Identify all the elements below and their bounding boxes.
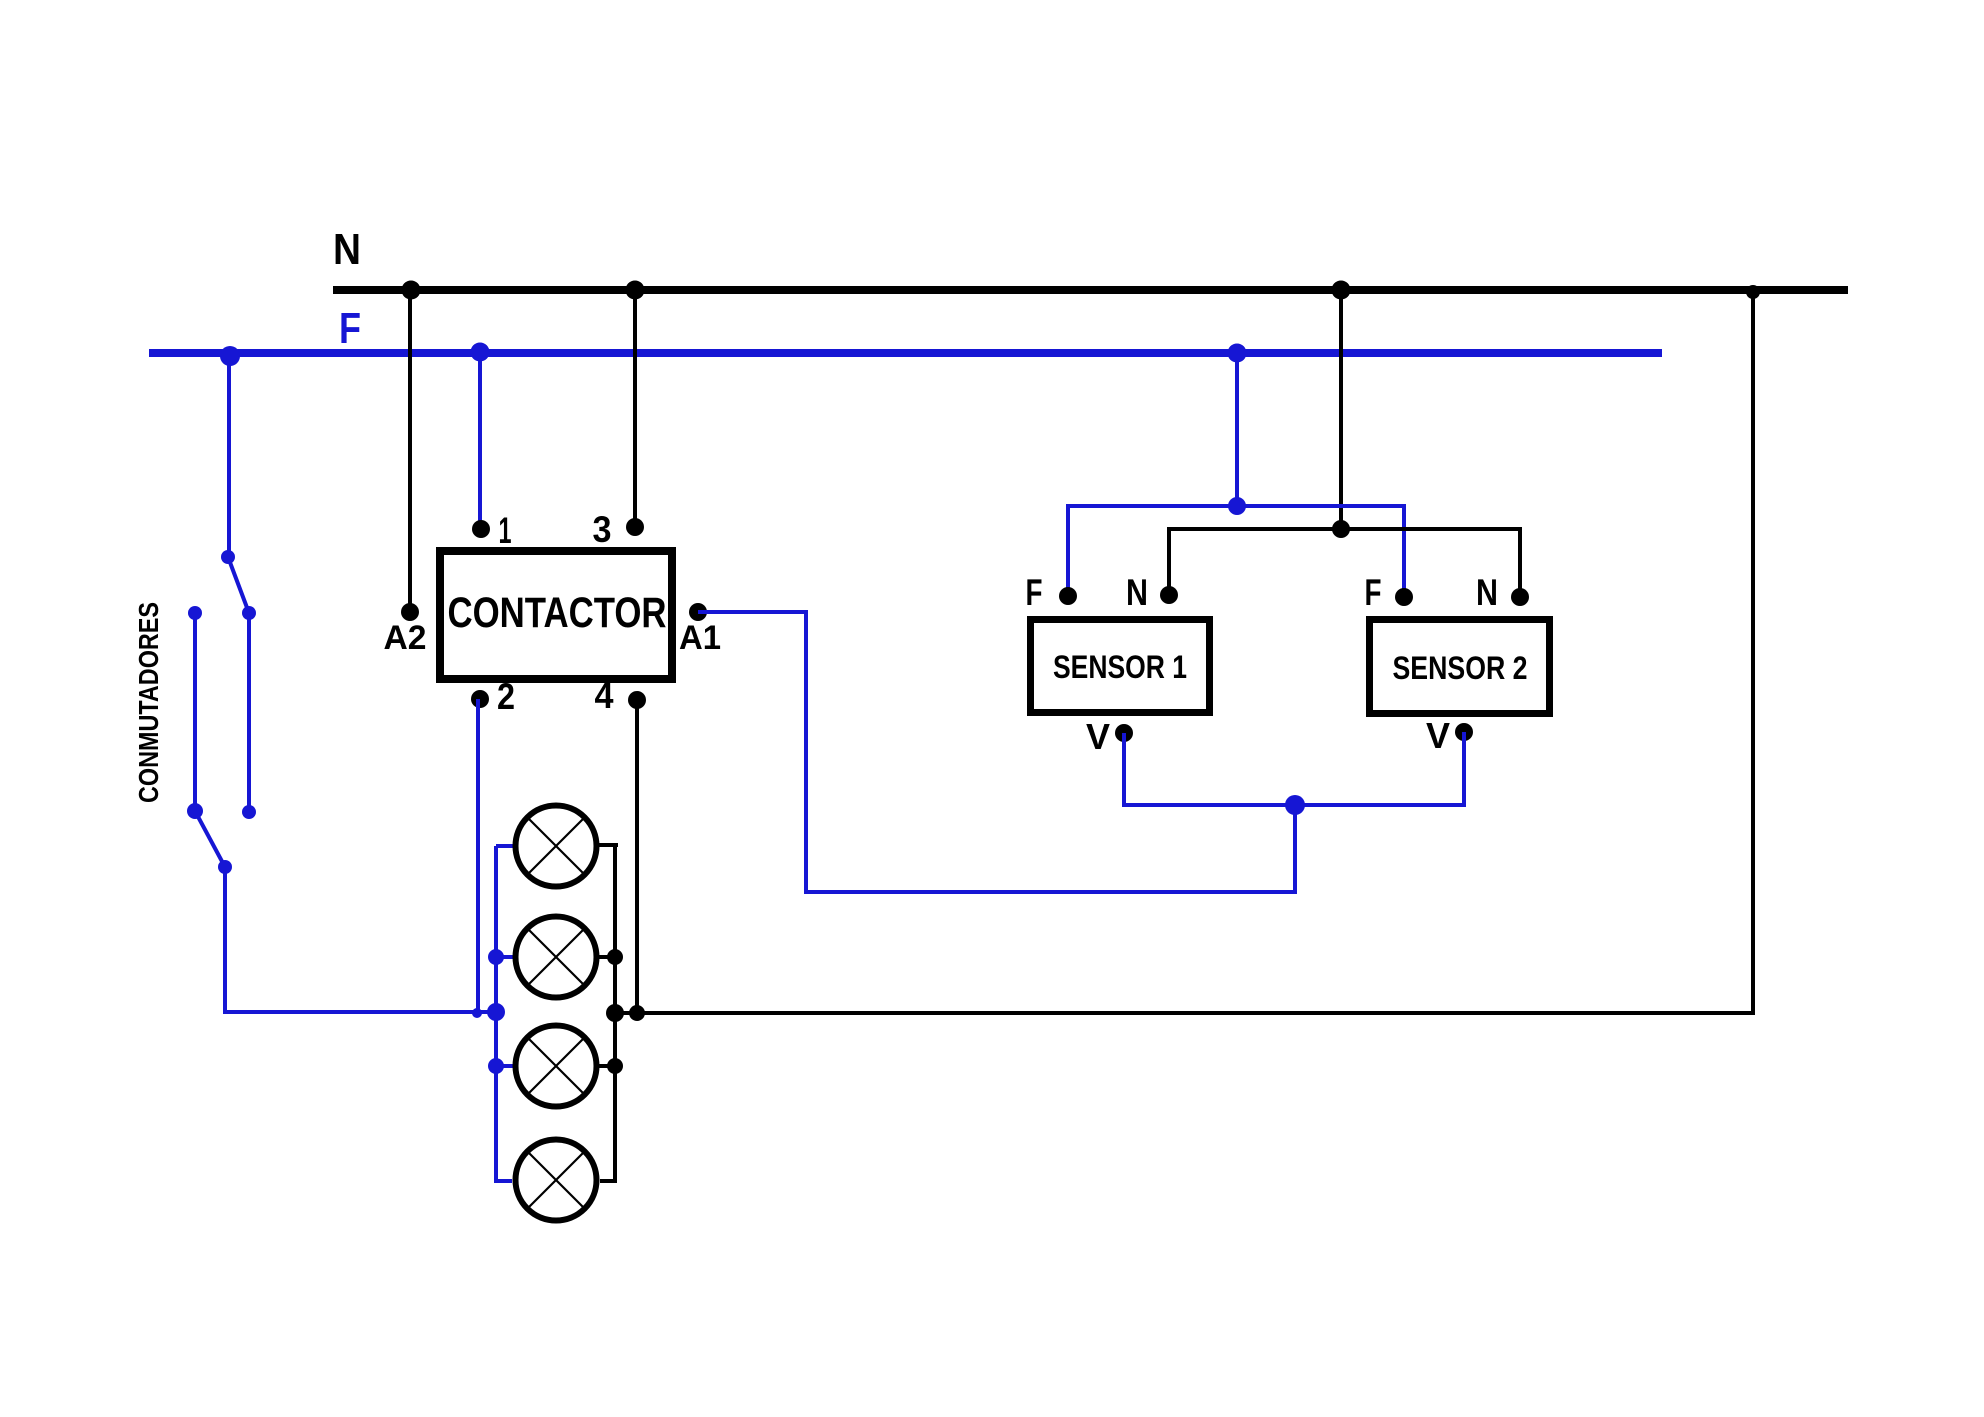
node : switch S1 common xyxy=(221,550,235,564)
lamp L3 xyxy=(516,1026,597,1107)
svg-text:A1: A1 xyxy=(679,619,721,657)
svg-text:V: V xyxy=(1086,716,1110,757)
pin A1 terminal dot xyxy=(689,603,707,621)
wire : lamp1 return stub xyxy=(599,843,618,847)
wire : lamp feed bus left vertical xyxy=(496,846,512,1181)
node : switch S2 contact left xyxy=(187,803,203,819)
svg-text:1: 1 xyxy=(499,510,512,551)
wire : N bus down to sensors N line xyxy=(1339,290,1343,529)
svg-text:A2: A2 xyxy=(384,619,427,657)
wire : lamp2 feed stub xyxy=(496,955,513,959)
pin V terminal dot sensor1 xyxy=(1115,724,1133,742)
junction : N bus / sensor N wire xyxy=(1332,281,1351,300)
junction : F bus / terminal 1 wire xyxy=(471,343,490,362)
pin 2 terminal dot xyxy=(471,690,489,708)
svg-text:N: N xyxy=(1476,572,1498,613)
junction : N bus / A2 wire xyxy=(402,281,421,300)
wire : contactor terminal 2 down to lamp feed xyxy=(476,699,480,1012)
junction : V wire / A1 loop xyxy=(1285,795,1305,815)
wire : switch link left vertical xyxy=(193,613,197,811)
wire : contactor terminal 4 down to lamp return xyxy=(635,700,639,1013)
wire : phase bus F horizontal xyxy=(149,349,1662,357)
pin N terminal dot sensor1 xyxy=(1160,586,1178,604)
svg-text:CONTACTOR: CONTACTOR xyxy=(448,589,667,637)
svg-text:SENSOR 2: SENSOR 2 xyxy=(1393,650,1528,686)
wire : N bus to contactor A2 xyxy=(408,290,412,612)
wire : switch S2 common down and across to lamp feed xyxy=(225,867,496,1012)
node : switch S1 contact right xyxy=(242,606,256,620)
wire : F bus to contactor terminal 1 xyxy=(478,353,482,528)
sensor box U2 SENSOR 1 xyxy=(1031,620,1210,713)
wire : lamp1 feed stub xyxy=(496,844,513,848)
wire : F bus to switch common xyxy=(227,353,231,557)
junction : F bus / switch wire xyxy=(220,346,240,366)
wire : F bus down to sensors F line xyxy=(1235,353,1239,506)
wire : lamp3 return stub xyxy=(599,1064,615,1068)
junction : lamp feed bus / switch wire xyxy=(487,1003,505,1021)
wire : sensor V outputs joined xyxy=(1124,732,1464,805)
wire : sensors F feeder horizontal xyxy=(1068,506,1404,597)
svg-text:N: N xyxy=(1126,572,1148,613)
node : switch S2 common xyxy=(218,860,232,874)
wire : neutral bus N horizontal xyxy=(333,286,1848,294)
svg-text:4: 4 xyxy=(595,675,614,716)
wire : sensors N feeder horizontal xyxy=(1169,529,1520,597)
junction : lamp2 feed xyxy=(488,949,504,965)
junction : F bus / sensor F wire xyxy=(1228,344,1247,363)
junction : lamp return bus / return line xyxy=(606,1004,624,1022)
junction : lamp3 feed xyxy=(488,1058,504,1074)
svg-text:F: F xyxy=(339,304,361,353)
contactor box U1 xyxy=(440,551,672,679)
wire : N bus right drop to lamp return xyxy=(615,290,1753,1013)
junction : N bus / right drop xyxy=(1746,285,1760,299)
lamp L1 xyxy=(516,806,597,887)
junction : N bus / terminal 3 wire xyxy=(626,281,645,300)
junction : terminal 4 wire / lamp return xyxy=(629,1005,645,1021)
svg-text:CONMUTADORES: CONMUTADORES xyxy=(133,602,164,803)
lamp L4 xyxy=(516,1140,597,1221)
sensor box U3 SENSOR 2 xyxy=(1370,620,1550,714)
junction : terminal 2 wire / lamp feed xyxy=(472,1008,482,1018)
lamp L2 xyxy=(516,917,597,998)
switch S2 lower conmutador blade xyxy=(195,811,225,867)
switch S1 upper conmutador blade xyxy=(228,557,249,613)
junction : lamp2 return xyxy=(607,949,623,965)
wire : lamp return bus right vertical xyxy=(600,846,615,1181)
pin F terminal dot sensor2 xyxy=(1395,588,1413,606)
node : switch S2 contact right xyxy=(242,805,256,819)
junction : F feeder tee xyxy=(1228,497,1246,515)
wire : lamp2 return stub xyxy=(599,955,615,959)
pin 4 terminal dot xyxy=(628,691,646,709)
svg-text:SENSOR 1: SENSOR 1 xyxy=(1053,649,1187,685)
pin N terminal dot sensor2 xyxy=(1511,588,1529,606)
wire : A1 blue loop to sensors V xyxy=(698,612,1295,892)
wire : switch link right vertical xyxy=(247,613,251,812)
wire : lamp3 feed stub xyxy=(496,1064,513,1068)
pin F terminal dot sensor1 xyxy=(1059,587,1077,605)
svg-text:3: 3 xyxy=(593,509,612,550)
pin 1 terminal dot xyxy=(472,520,490,538)
pin 3 terminal dot xyxy=(626,518,644,536)
junction : lamp3 return xyxy=(607,1058,623,1074)
pin V terminal dot sensor2 xyxy=(1455,723,1473,741)
junction : N feeder tee xyxy=(1332,520,1350,538)
svg-text:F: F xyxy=(1026,572,1043,613)
svg-text:V: V xyxy=(1426,715,1450,756)
svg-text:N: N xyxy=(333,225,361,274)
wire : N bus to contactor terminal 3 xyxy=(633,290,637,527)
node : switch S1 contact left xyxy=(188,606,202,620)
svg-text:F: F xyxy=(1365,572,1382,613)
pin A2 terminal dot xyxy=(401,603,419,621)
svg-text:2: 2 xyxy=(497,676,515,717)
